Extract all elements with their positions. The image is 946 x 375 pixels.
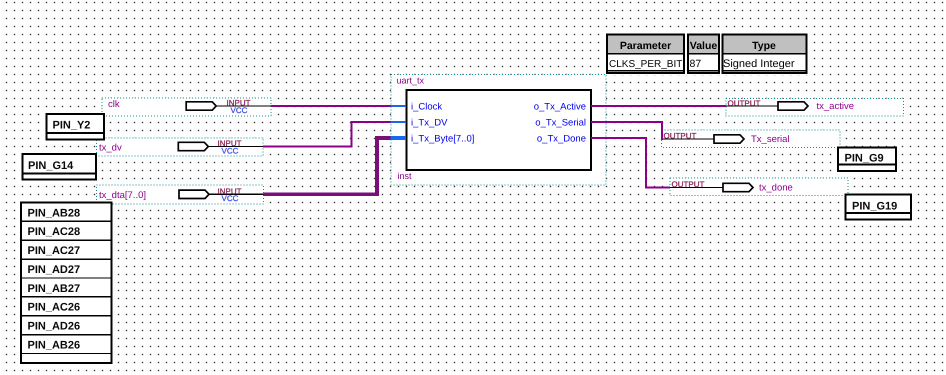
svg-text:inst: inst (398, 171, 413, 181)
pin assignment PIN_Y2 (47, 114, 105, 140)
svg-text:PIN_AD27: PIN_AD27 (28, 264, 81, 276)
pin assignment PIN_G14 (23, 154, 97, 180)
input pin tx_dv (97, 138, 264, 156)
svg-text:tx_dv: tx_dv (99, 142, 122, 153)
svg-text:o_Tx_Done: o_Tx_Done (537, 134, 586, 145)
svg-text:VCC: VCC (222, 194, 239, 203)
svg-text:i_Tx_DV: i_Tx_DV (411, 118, 448, 129)
wire tx_dv net (263, 122, 391, 147)
svg-text:tx_done: tx_done (759, 183, 793, 194)
svg-text:Parameter: Parameter (620, 40, 671, 52)
port stub i_Clock (391, 102, 443, 113)
svg-text:o_Tx_Active: o_Tx_Active (534, 102, 586, 113)
wire tx_done net (591, 138, 670, 188)
svg-text:Signed Integer: Signed Integer (723, 58, 795, 70)
svg-text:PIN_AD26: PIN_AD26 (28, 321, 81, 333)
svg-text:i_Tx_Byte[7..0]: i_Tx_Byte[7..0] (411, 134, 474, 145)
svg-text:CLKS_PER_BIT: CLKS_PER_BIT (609, 59, 682, 70)
svg-text:PIN_G19: PIN_G19 (852, 201, 897, 213)
svg-text:tx_dta[7..0]: tx_dta[7..0] (99, 190, 146, 201)
svg-text:PIN_AC28: PIN_AC28 (28, 226, 81, 238)
svg-text:PIN_Y2: PIN_Y2 (53, 120, 91, 132)
port stub i_Tx_Byte[7..0] (391, 134, 475, 145)
module uart_tx (391, 75, 606, 186)
wire tx_active net (591, 105, 726, 107)
svg-text:Value: Value (690, 40, 718, 52)
svg-text:PIN_AB26: PIN_AB26 (28, 339, 81, 351)
input pin clk (102, 98, 271, 116)
svg-text:Tx_serial: Tx_serial (751, 134, 790, 145)
svg-text:87: 87 (690, 58, 702, 70)
parameter table (606, 33, 810, 75)
svg-text:PIN_G14: PIN_G14 (28, 160, 74, 172)
wire Tx_serial net (591, 122, 662, 140)
svg-text:o_Tx_Serial: o_Tx_Serial (535, 118, 586, 129)
output pin tx_done (670, 178, 848, 196)
svg-text:PIN_AC27: PIN_AC27 (28, 245, 81, 257)
svg-text:tx_active: tx_active (817, 101, 855, 112)
port o_Tx_Done (537, 134, 586, 145)
svg-text:PIN_AC26: PIN_AC26 (28, 302, 81, 314)
bus tx_dta net (264, 138, 392, 194)
output pin Tx_serial (662, 130, 841, 148)
wire clk net (271, 105, 391, 107)
svg-text:PIN_AB28: PIN_AB28 (28, 207, 81, 219)
port stub i_Tx_DV (391, 118, 449, 129)
pin assignment PIN_G19 (846, 195, 912, 220)
pin assignment PIN_G9 (838, 148, 896, 172)
output pin tx_active (726, 99, 904, 117)
svg-text:clk: clk (108, 99, 120, 110)
pin assignment stack PIN_AB28..PIN_AB26 (21, 203, 112, 364)
svg-text:VCC: VCC (231, 106, 248, 115)
svg-text:PIN_G9: PIN_G9 (845, 152, 884, 164)
port o_Tx_Serial (535, 118, 586, 129)
svg-text:i_Clock: i_Clock (411, 102, 442, 113)
input pin tx_dta[7..0] (97, 185, 264, 204)
svg-text:uart_tx: uart_tx (397, 76, 425, 86)
svg-text:Type: Type (752, 40, 776, 52)
svg-text:PIN_AB27: PIN_AB27 (28, 283, 81, 295)
port o_Tx_Active (534, 102, 586, 113)
svg-text:VCC: VCC (222, 146, 239, 155)
